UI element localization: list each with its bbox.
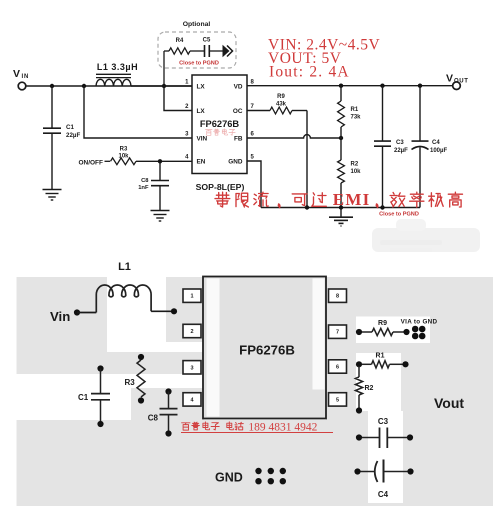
svg-text:C8: C8 [141, 178, 149, 184]
svg-text:Close to PGND: Close to PGND [179, 61, 219, 67]
copper pour regions [17, 277, 108, 372]
IC body FP6276B (layout) [203, 277, 326, 419]
resistor R2 10k [340, 138, 342, 160]
wire pin3 VIN [84, 86, 192, 138]
svg-text:100µF: 100µF [430, 148, 447, 154]
svg-text:L1 3.3µH: L1 3.3µH [97, 62, 138, 72]
wire pin7 OC [247, 110, 270, 112]
node rail C3 [380, 205, 384, 209]
svg-text:R9: R9 [277, 94, 285, 100]
ground main [340, 208, 342, 217]
terminal VOUT [453, 82, 461, 90]
svg-text:C1: C1 [78, 393, 89, 402]
svg-text:C3: C3 [396, 140, 404, 146]
svg-text:10k: 10k [118, 153, 129, 159]
resistor R1 73k [339, 84, 343, 88]
svg-text:VIA to GND: VIA to GND [401, 319, 438, 326]
capacitor C4 (layout) [354, 468, 360, 474]
wire pin6 FB with hop [247, 135, 341, 138]
svg-text:22µF: 22µF [394, 148, 408, 154]
node L1 right [171, 308, 177, 314]
svg-text:SOP-8L(EP): SOP-8L(EP) [196, 182, 245, 192]
wire pin2 LX [164, 86, 192, 111]
svg-text:Close to PGND: Close to PGND [379, 212, 419, 218]
svg-text:VIN: VIN [197, 136, 208, 143]
svg-text:1nF: 1nF [138, 185, 149, 191]
svg-text:FP6276B: FP6276B [239, 343, 295, 358]
svg-text:OUT: OUT [454, 79, 468, 85]
svg-text:FP6276B: FP6276B [200, 119, 240, 129]
svg-text:R2: R2 [351, 162, 359, 168]
node rail R2 [339, 205, 343, 209]
svg-text:189 4831 4942: 189 4831 4942 [248, 421, 317, 433]
node C1 junction [50, 84, 54, 88]
IC U1 FP6276B [192, 75, 247, 174]
wire R9 down to ground rail [292, 110, 307, 112]
ground rail [261, 207, 420, 209]
capacitor C3 22uF [380, 84, 384, 88]
svg-text:22µF: 22µF [66, 132, 80, 139]
svg-text:10k: 10k [351, 169, 362, 175]
node rail R9 [305, 205, 309, 209]
watermark blob [372, 228, 480, 252]
annotation chinese feature line [215, 192, 230, 207]
wire VIN rail [26, 85, 192, 87]
svg-text:VD: VD [234, 84, 243, 91]
capacitor C1 (layout) [97, 365, 103, 371]
svg-text:R1: R1 [351, 107, 359, 113]
svg-text:GND: GND [215, 471, 243, 485]
resistor R4 [164, 50, 169, 52]
capacitor C5 [190, 50, 204, 52]
optional snubber box [158, 32, 236, 68]
wire L1 to pin1 [131, 85, 192, 87]
svg-text:EMI: EMI [333, 190, 371, 209]
svg-text:LX: LX [197, 108, 206, 115]
svg-text:7: 7 [336, 330, 339, 336]
svg-text:C5: C5 [203, 38, 211, 44]
node LX junction A [162, 84, 166, 88]
IC pads right [329, 289, 347, 302]
svg-text:Optional: Optional [183, 21, 211, 28]
node Vin pad [74, 309, 80, 315]
svg-text:Vout: Vout [434, 395, 464, 411]
capacitor C8 (layout) [165, 388, 171, 394]
wire pin5 GND [247, 161, 261, 208]
wire R3 to pin4 EN [136, 160, 192, 162]
svg-text:R4: R4 [176, 38, 184, 44]
svg-text:R3: R3 [120, 147, 128, 153]
wire VD top rail [247, 85, 453, 87]
svg-text:C8: C8 [148, 414, 159, 423]
svg-text:C4: C4 [378, 490, 389, 499]
capacitor C1 22uF [51, 86, 53, 128]
IC pads left [183, 289, 201, 302]
svg-text:6: 6 [336, 365, 339, 371]
svg-text:ON/OFF: ON/OFF [78, 159, 103, 166]
svg-text:R2: R2 [365, 385, 374, 392]
svg-text:R3: R3 [125, 378, 136, 387]
capacitor C4 100uF polarized [418, 84, 422, 88]
node FB divider [339, 136, 343, 140]
resistor R3 10k [111, 158, 137, 165]
resistor R9 43k [270, 107, 292, 114]
svg-text:L1: L1 [118, 261, 131, 273]
svg-text:C4: C4 [432, 140, 440, 146]
phone watermark text [182, 423, 190, 430]
svg-text:LX: LX [197, 84, 206, 91]
svg-text:5: 5 [336, 397, 339, 403]
wire optional to node A [163, 51, 165, 86]
watermark faint lines top right [380, 240, 442, 245]
svg-text:2: 2 [190, 329, 193, 335]
svg-text:1: 1 [190, 294, 193, 300]
svg-text:V: V [13, 68, 20, 80]
svg-text:C1: C1 [66, 124, 74, 131]
terminal VIN [18, 82, 26, 90]
resistor R2 (layout) [358, 366, 360, 377]
svg-text:GND: GND [228, 159, 243, 166]
PGND arrow symbol [223, 45, 230, 57]
svg-text:EN: EN [197, 159, 206, 166]
resistor R3 (layout) [138, 354, 144, 360]
svg-text:FB: FB [234, 136, 243, 143]
svg-text:43k: 43k [276, 102, 287, 108]
svg-text:C3: C3 [378, 417, 389, 426]
svg-text:8: 8 [336, 294, 339, 300]
capacitor C8 1nF [159, 161, 161, 180]
svg-text:IN: IN [22, 74, 30, 80]
svg-text:Vin: Vin [50, 309, 70, 324]
watermark in IC [206, 130, 213, 136]
ground for C1 [43, 189, 62, 191]
node L1 junction [82, 84, 86, 88]
node EN/C8 [158, 159, 162, 163]
ground for C8 [151, 210, 170, 212]
svg-text:3: 3 [190, 365, 193, 371]
svg-text:R9: R9 [378, 320, 387, 327]
svg-text:R1: R1 [376, 353, 385, 360]
svg-text:73k: 73k [351, 115, 362, 121]
svg-text:OC: OC [233, 108, 243, 115]
svg-text:V: V [446, 73, 453, 85]
svg-text:Iout: 2. 4A: Iout: 2. 4A [269, 64, 350, 81]
